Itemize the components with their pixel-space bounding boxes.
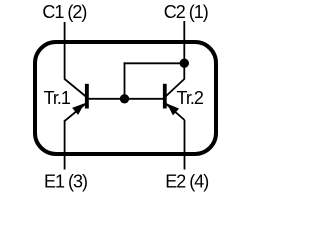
wire: base-to-collector tie, vertical segment: [124, 62, 126, 99]
junction node: base tied to C2: [180, 59, 189, 68]
svg-text:C2 (1): C2 (1): [164, 2, 208, 22]
wire: base-to-collector tie, horizontal segment: [124, 62, 185, 64]
package outline: [35, 42, 216, 154]
junction node: common base: [120, 94, 129, 103]
svg-text:E1 (3): E1 (3): [44, 171, 87, 191]
wire: C2 collector lead: [183, 21, 185, 80]
transistor Tr.2 (PNP): [163, 79, 185, 120]
transistor Tr.1 (PNP): [65, 79, 89, 121]
wire: E2 emitter lead: [184, 120, 186, 170]
svg-text:Tr.2: Tr.2: [177, 88, 204, 108]
svg-text:Tr.1: Tr.1: [44, 88, 71, 108]
svg-text:C1 (2): C1 (2): [42, 2, 86, 22]
wire: E1 emitter lead: [64, 120, 66, 170]
svg-text:E2 (4): E2 (4): [165, 171, 208, 191]
wire: common base bus: [86, 98, 165, 100]
wire: C1 collector lead: [64, 22, 66, 80]
